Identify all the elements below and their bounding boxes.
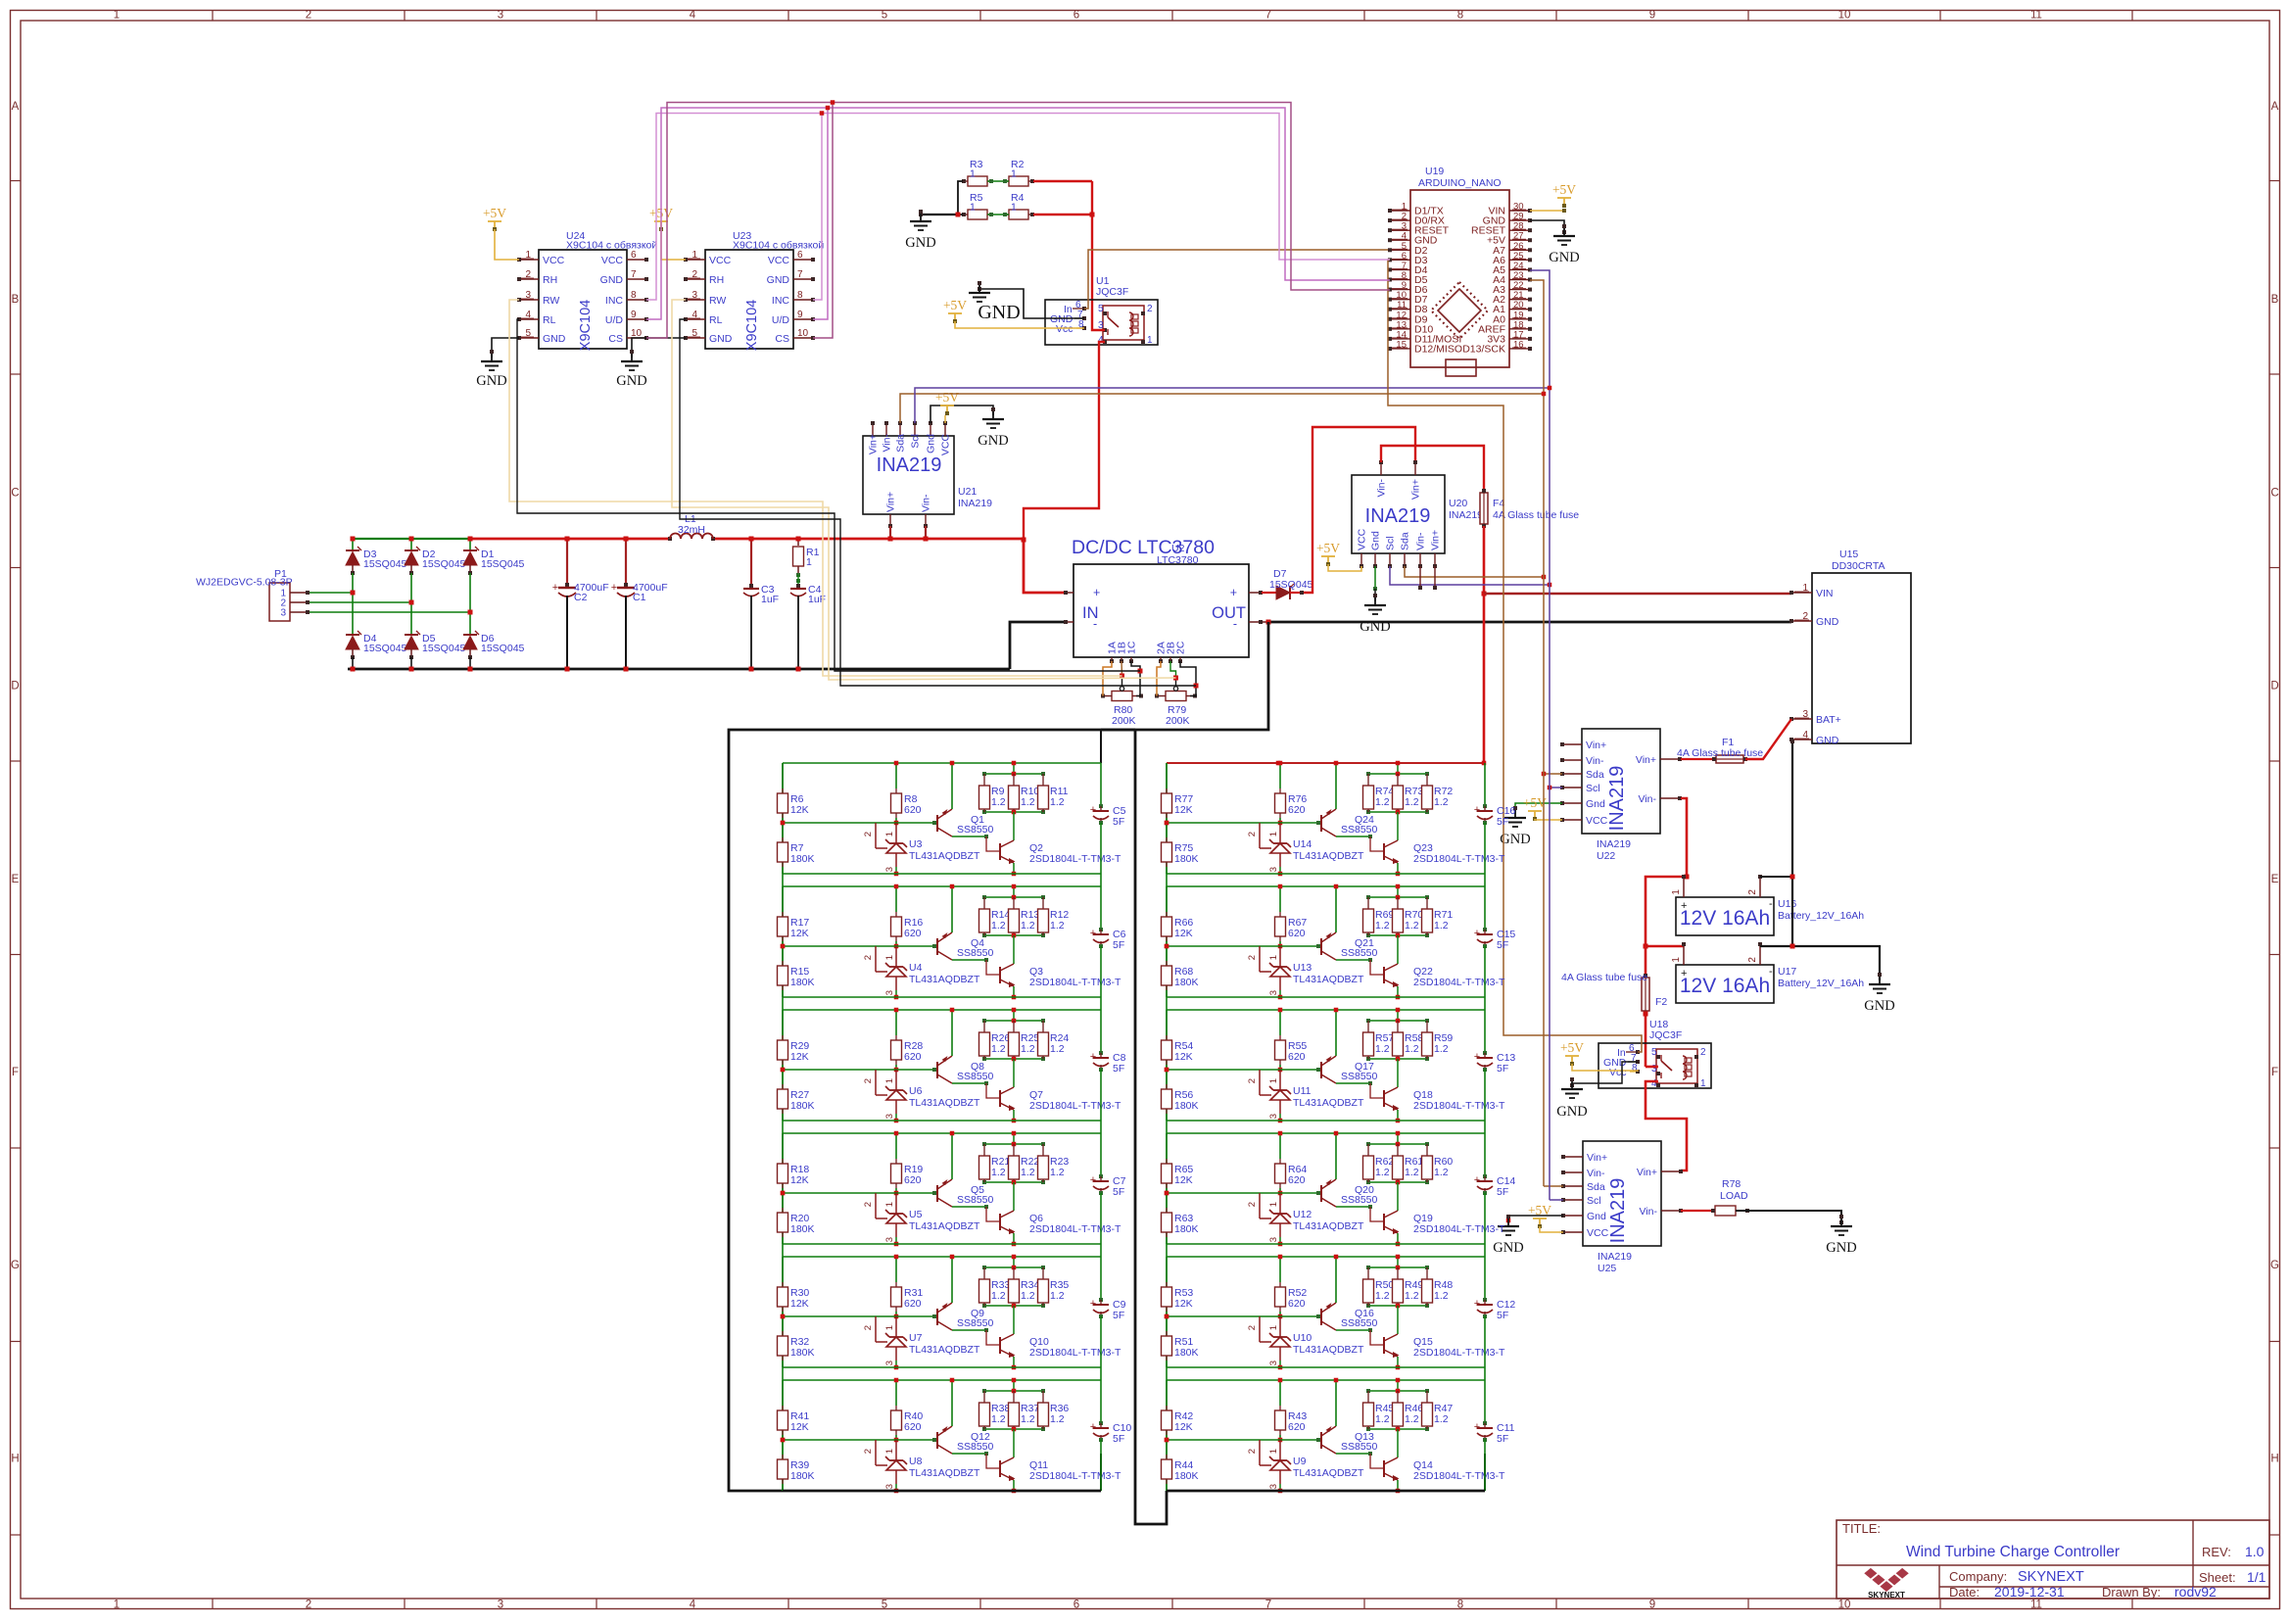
svg-text:2: 2 [1247,955,1258,960]
diode D4 15SQ045 [346,634,359,636]
svg-text:620: 620 [904,1174,922,1186]
svg-text:GND: GND [1826,1240,1856,1256]
svg-text:1.2: 1.2 [1375,796,1390,808]
svg-text:1.2: 1.2 [1405,1413,1419,1425]
svg-text:JQC3F: JQC3F [1096,286,1128,298]
wire base stub Q10 [986,1330,1000,1345]
svg-text:1: 1 [1671,889,1682,895]
wire GND rail jog into LTC3780 IN- [1010,622,1065,669]
svg-text:TITLE:: TITLE: [1842,1521,1881,1536]
resistor group R62 R61 R60 1.2 [1368,1143,1427,1145]
svg-text:RH: RH [543,274,557,286]
svg-text:INA219: INA219 [1606,766,1628,832]
svg-text:+5V: +5V [1528,1203,1551,1218]
svg-text:X9C104: X9C104 [744,300,760,351]
svg-text:3: 3 [280,608,286,619]
ground for U18 [1572,1062,1638,1086]
wire ref node U11 [1165,1068,1169,1073]
wire 2C to R79 right [1180,661,1196,686]
svg-text:2: 2 [863,1449,874,1454]
diode D6 15SQ045 [463,634,477,636]
resistor R15 180K [782,946,784,961]
transistor Q9 SS8550 [936,1309,938,1325]
wire cell bottom rail C13 [1167,1120,1485,1122]
wire inter-cell link [782,1244,784,1257]
transistor Q6 2SD1804L-T-TM3-T [1013,1182,1015,1211]
svg-text:10: 10 [1838,1600,1851,1611]
IC U24 X9C104 [539,250,627,349]
SKYNEXT logo [1863,1567,1878,1580]
wire cell bottom rail C7 [783,1243,1101,1245]
transistor Q15 2SD1804L-T-TM3-T [1397,1306,1399,1334]
wire cell top rail C10 [783,1379,1101,1381]
wire cell left rail C13 [1166,1010,1168,1121]
wire U20 Vin- up to fuse F4 [1381,446,1484,491]
wire U20 Sda to bus [1405,566,1544,577]
svg-text:+: + [1681,968,1687,979]
wire 1B to R80 wiper [1121,661,1123,676]
converter U2 LTC3780 [1073,564,1249,657]
svg-text:GND: GND [1556,1104,1587,1120]
pin LTC3780 OUT- [1249,621,1268,623]
resistor R41 12K [782,1380,784,1406]
svg-text:12K: 12K [790,1421,809,1433]
svg-text:620: 620 [1288,804,1306,816]
wire phase 1 [310,592,353,594]
capacitor C6 5F [1100,886,1102,930]
resistor R75 180K [1166,823,1168,837]
svg-text:Battery_12V_16Ah: Battery_12V_16Ah [1778,978,1864,989]
wire left side of divider to GND [958,181,963,215]
wire divider node down to relay U1 [1091,181,1093,215]
capacitor C10 5F [1100,1380,1102,1423]
resistor R78 LOAD [1681,1210,1715,1212]
wire cathode D2 to DC+ rail [410,539,412,550]
svg-text:4: 4 [690,10,696,22]
svg-text:U11: U11 [1293,1085,1312,1097]
pin LTC3780 1A [1111,657,1113,661]
svg-text:TL431AQDBZT: TL431AQDBZT [1293,1344,1364,1356]
wire battery node down to F2 [1645,946,1647,976]
wire net CS: U23 pin10 branch [813,103,833,339]
capacitor C4 1uF [796,584,800,588]
wire collector Q9 to base Q10 [952,1329,986,1331]
resistor R17 12K [782,886,784,912]
svg-text:GND: GND [1500,832,1530,847]
transistor Q3 2SD1804L-T-TM3-T [1013,935,1015,964]
svg-text:1: 1 [114,10,119,22]
resistor R65 12K [1166,1133,1168,1159]
wire cell left rail C16 [1166,763,1168,874]
capacitor C1 4700uF [625,539,627,585]
diode D5 15SQ045 [405,634,418,636]
svg-text:2SD1804L-T-TM3-T: 2SD1804L-T-TM3-T [1029,1223,1121,1235]
svg-text:1.2: 1.2 [1375,920,1390,931]
svg-text:3: 3 [1268,867,1279,872]
wire base node Q9 [876,1315,934,1317]
wire U22 Vin- to battery + [1681,798,1687,877]
transistor Q5 SS8550 [936,1185,938,1202]
transistor Q18 2SD1804L-T-TM3-T [1397,1059,1399,1087]
svg-text:1: 1 [1011,168,1017,180]
battery U16 12V 16Ah [1676,897,1774,935]
svg-text:RL: RL [709,314,723,326]
resistor group R26 R25 R24 1.2 [984,1020,1043,1022]
svg-text:GND: GND [476,373,506,389]
resistor R66 12K [1166,886,1168,912]
usb connector glyph [1446,359,1476,376]
wire LTC output to right bank top rail [1483,594,1486,763]
svg-text:WJ2EDGVC-5.08-3P: WJ2EDGVC-5.08-3P [196,577,293,589]
svg-text:ARDUINO_NANO: ARDUINO_NANO [1418,177,1502,189]
svg-text:+5V: +5V [943,298,967,312]
resistor R8 620 [895,763,897,788]
svg-text:15SQ045: 15SQ045 [422,558,466,570]
svg-text:TL431AQDBZT: TL431AQDBZT [909,1097,980,1109]
svg-text:1.2: 1.2 [1050,920,1065,931]
resistor R2 1 [1009,176,1028,186]
relay U1 JQC3F [1045,300,1158,345]
svg-text:TL431AQDBZT: TL431AQDBZT [1293,1097,1364,1109]
svg-text:E: E [12,874,20,885]
svg-text:Vin+: Vin+ [1410,479,1422,500]
svg-text:U3: U3 [909,838,923,850]
svg-text:2SD1804L-T-TM3-T: 2SD1804L-T-TM3-T [1413,977,1505,988]
svg-text:VCC: VCC [1357,528,1368,550]
wire base node Q16 [1260,1315,1318,1317]
wire base node Q13 [1260,1439,1318,1441]
svg-text:2SD1804L-T-TM3-T: 2SD1804L-T-TM3-T [1413,1223,1505,1235]
svg-text:1: 1 [884,1449,895,1454]
svg-text:Sheet:: Sheet: [2199,1570,2236,1585]
regulator U6 TL431AQDBZT [875,1070,877,1095]
wire F2 to relay U18 [1645,1014,1647,1067]
svg-text:D: D [11,681,19,693]
wire right bank top rail [1167,762,1485,764]
svg-text:2SD1804L-T-TM3-T: 2SD1804L-T-TM3-T [1029,977,1121,988]
svg-text:2: 2 [1247,1325,1258,1330]
regulator U14 TL431AQDBZT [1259,823,1261,848]
svg-text:U21: U21 [958,486,977,498]
wire U25 Gnd to ground [1508,1216,1563,1223]
svg-text:1.2: 1.2 [1434,920,1449,931]
wire cell bottom rail C16 [1167,873,1485,875]
wire inter-cell link [1166,997,1168,1010]
svg-text:5F: 5F [1497,1433,1508,1445]
resistor R76 620 [1279,763,1281,788]
svg-text:11: 11 [2030,1600,2042,1611]
svg-text:VIN: VIN [1816,588,1834,599]
transistor Q10 2SD1804L-T-TM3-T [1013,1306,1015,1334]
regulator U7 TL431AQDBZT [875,1316,877,1342]
regulator U8 TL431AQDBZT [875,1440,877,1465]
wire U21 Gnd to ground [930,406,993,423]
svg-text:180K: 180K [1174,853,1199,865]
svg-text:12V 16Ah: 12V 16Ah [1680,907,1770,930]
svg-text:15SQ045: 15SQ045 [363,558,407,570]
resistor group R33 R34 R35 1.2 [984,1266,1043,1268]
capacitor C2 4700uF [566,539,568,585]
svg-text:9: 9 [631,310,637,320]
transistor Q23 2SD1804L-T-TM3-T [1397,812,1399,840]
svg-text:1.2: 1.2 [1021,920,1035,931]
svg-text:1.0: 1.0 [2245,1544,2265,1559]
svg-text:G: G [11,1260,20,1271]
wire D7 cathode up to U20 Vin+ [1290,592,1304,594]
svg-text:U5: U5 [909,1209,923,1220]
svg-text:620: 620 [1288,928,1306,939]
wire cell top rail C12 [1167,1256,1485,1258]
resistor R4 1 [1009,210,1028,219]
svg-text:1.2: 1.2 [1050,1413,1065,1425]
resistor group R69 R70 R71 1.2 [1368,896,1427,898]
svg-text:GND: GND [1360,619,1390,635]
svg-text:B: B [12,294,20,306]
svg-text:Wind Turbine Charge Controller: Wind Turbine Charge Controller [1906,1544,2120,1560]
svg-text:TL431AQDBZT: TL431AQDBZT [909,1344,980,1356]
wire base node Q17 [1260,1069,1318,1071]
pin U20 Vin+ nc [1434,566,1436,588]
svg-text:TL431AQDBZT: TL431AQDBZT [909,974,980,985]
regulator U13 TL431AQDBZT [1259,946,1261,972]
svg-text:1.2: 1.2 [1405,1167,1419,1178]
resistor group R74 R73 R72 1.2 [1368,773,1427,775]
regulator U3 TL431AQDBZT [875,823,877,848]
wire collector Q1 to base Q2 [952,836,986,837]
mcu chip glyph [1438,289,1481,332]
svg-text:VCC: VCC [768,255,790,266]
svg-text:5F: 5F [1497,1186,1508,1198]
wire cell bottom rail C5 [783,873,1101,875]
regulator U10 TL431AQDBZT [1259,1316,1261,1342]
svg-text:180K: 180K [1174,1470,1199,1482]
svg-text:4A Glass tube fuse: 4A Glass tube fuse [1561,972,1647,983]
svg-text:Vin-: Vin- [1586,755,1604,767]
regulator U5 TL431AQDBZT [875,1193,877,1218]
wire D3 line to U18 In [1388,260,1642,1052]
wire GND bottom rail [348,668,1010,671]
transistor Q22 2SD1804L-T-TM3-T [1397,935,1399,964]
svg-text:1: 1 [1268,1449,1279,1454]
wire cell bottom rail C14 [1167,1243,1485,1245]
wire base stub Q11 [986,1454,1000,1468]
resistor group R50 R49 R48 1.2 [1368,1266,1427,1268]
svg-text:6: 6 [631,250,637,261]
svg-text:GND: GND [543,333,566,345]
svg-text:620: 620 [1288,1421,1306,1433]
wire anode D6 to GND rail [469,657,471,669]
transistor Q1 SS8550 [936,815,938,832]
svg-text:12K: 12K [790,1174,809,1186]
svg-text:D13/SCK: D13/SCK [1462,343,1505,355]
wire U24 RW cream bus [509,300,1122,676]
svg-text:CS: CS [775,333,789,345]
svg-text:1: 1 [1268,832,1279,836]
svg-text:Vin+: Vin+ [1587,1152,1607,1164]
svg-text:U12: U12 [1293,1209,1312,1220]
wire F4 down to VIN rail junction [1483,526,1486,594]
resistor R5 1 [968,210,987,219]
svg-text:2: 2 [1147,304,1153,314]
wire base node Q5 [876,1192,934,1194]
svg-text:1: 1 [970,202,976,214]
svg-text:2: 2 [1747,957,1758,963]
svg-text:INA219: INA219 [1598,1251,1632,1263]
wire U21 Vin+ down to DC+ rail [889,526,891,539]
svg-text:4: 4 [690,1600,696,1611]
svg-text:8: 8 [1457,1600,1463,1611]
svg-text:GND: GND [1549,250,1579,265]
svg-text:3: 3 [884,1114,895,1119]
wire 2B to R79 wiper [1170,661,1176,678]
svg-text:+5V: +5V [483,206,506,220]
svg-text:15SQ045: 15SQ045 [363,643,407,654]
svg-text:180K: 180K [790,1223,815,1235]
svg-text:RL: RL [543,314,556,326]
wire 2A to R79 left [1157,661,1161,696]
wire U23 RL black bus [680,319,1196,686]
wire inter-cell link [1166,1367,1168,1380]
transistor Q17 SS8550 [1320,1062,1322,1078]
wire cell left rail C15 [1166,886,1168,997]
svg-text:6: 6 [1073,10,1079,22]
capacitor C5 5F [1100,763,1102,806]
svg-text:620: 620 [904,1421,922,1433]
regulator U9 TL431AQDBZT [1259,1440,1261,1465]
transistor Q21 SS8550 [1320,938,1322,955]
svg-text:+5V: +5V [1316,541,1340,555]
svg-text:F: F [12,1067,19,1078]
svg-text:2: 2 [306,1600,311,1611]
wire inter-cell link [782,1121,784,1133]
wire net U/D: U24 pin9 to Arduino D5 [646,108,1390,319]
svg-text:2SD1804L-T-TM3-T: 2SD1804L-T-TM3-T [1413,853,1505,865]
svg-text:3: 3 [1268,1237,1279,1242]
wire F1 to BAT+ diagonal [1745,719,1791,759]
svg-text:Battery_12V_16Ah: Battery_12V_16Ah [1778,910,1864,922]
current sensor U25 INA219 [1583,1141,1661,1246]
wire cell top rail C14 [1167,1132,1485,1134]
svg-text:1/1: 1/1 [2247,1569,2266,1585]
svg-text:Sda: Sda [1586,769,1604,781]
resistor R55 620 [1279,1010,1281,1035]
svg-text:2: 2 [1247,1449,1258,1454]
svg-text:200K: 200K [1166,715,1190,727]
svg-text:2: 2 [1700,1047,1706,1058]
svg-text:1.2: 1.2 [1021,1167,1035,1178]
wire Sda bus vertical [1530,280,1544,1186]
wire collector Q5 to base Q6 [952,1206,986,1208]
svg-text:2SD1804L-T-TM3-T: 2SD1804L-T-TM3-T [1029,1100,1121,1112]
svg-text:1.2: 1.2 [991,1290,1006,1302]
wire base node Q20 [1260,1192,1318,1194]
svg-text:+: + [611,582,617,594]
svg-text:1.2: 1.2 [1434,1290,1449,1302]
svg-text:rodv92: rodv92 [2174,1584,2217,1600]
wire cell bottom rail C15 [1167,996,1485,998]
resistor R54 12K [1166,1010,1168,1035]
svg-text:C: C [2270,487,2278,499]
wire base node Q8 [876,1069,934,1071]
svg-text:D: D [2270,681,2278,693]
wire U21 Vin- down to DC+ rail [925,526,927,539]
svg-text:RW: RW [543,295,559,307]
svg-text:C1: C1 [633,592,646,603]
svg-text:INA219: INA219 [958,498,992,509]
svg-text:INA219: INA219 [877,454,942,476]
capacitor C16 5F [1484,763,1486,806]
svg-text:2SD1804L-T-TM3-T: 2SD1804L-T-TM3-T [1413,1347,1505,1359]
wire collector Q24 to base Q23 [1336,836,1370,837]
svg-text:15SQ045: 15SQ045 [422,643,466,654]
capacitor C8 5F [1100,1010,1102,1053]
wire D2 to U1 In [1084,250,1390,309]
resistor R42 12K [1166,1380,1168,1406]
wire base node Q24 [1260,822,1318,824]
resistor R27 180K [782,1070,784,1084]
svg-text:200K: 200K [1112,715,1136,727]
wire ref node U12 [1165,1191,1169,1196]
svg-text:SS8550: SS8550 [957,1441,994,1453]
resistor R53 12K [1166,1257,1168,1282]
resistor R67 620 [1279,886,1281,912]
resistor R19 620 [895,1133,897,1159]
svg-text:620: 620 [1288,1298,1306,1310]
resistor R30 12K [782,1257,784,1282]
svg-text:U16: U16 [1778,898,1796,910]
svg-text:VCC: VCC [1587,1227,1609,1239]
svg-text:1: 1 [1671,957,1682,963]
svg-text:12K: 12K [790,1298,809,1310]
wire U19 GND [1530,220,1564,232]
svg-text:INA219: INA219 [1597,838,1631,850]
svg-text:12K: 12K [1174,1051,1193,1063]
svg-text:1.2: 1.2 [1375,1413,1390,1425]
resistor R29 12K [782,1010,784,1035]
svg-text:1.2: 1.2 [991,1167,1006,1178]
svg-text:-: - [1233,617,1237,631]
wire anode D5 to GND rail [410,657,412,669]
wire ref node U8 [781,1438,786,1443]
svg-text:180K: 180K [790,977,815,988]
wire base stub Q14 [1370,1454,1384,1468]
wire collector Q20 to base Q19 [1336,1206,1370,1208]
capacitor C11 5F [1484,1380,1486,1423]
resistor R44 180K [1166,1440,1168,1455]
svg-text:1: 1 [114,1600,119,1611]
svg-text:GND: GND [1816,735,1839,746]
resistor R39 180K [782,1440,784,1455]
wire net INC: U24 pin8 to Arduino D3 [646,114,1390,301]
svg-text:3: 3 [498,1600,503,1611]
wire cell left rail C10 [782,1380,784,1491]
wire left bank right edge [1135,730,1167,1524]
svg-text:1.2: 1.2 [1405,1290,1419,1302]
wire phase node column x=360 [352,573,354,635]
power +5V for U19 VIN [1530,210,1564,212]
resistor R7 180K [782,823,784,837]
svg-text:Gnd: Gnd [1370,531,1382,550]
transistor Q2 2SD1804L-T-TM3-T [1013,812,1015,840]
svg-text:5: 5 [882,1600,887,1611]
wire cell top rail C7 [783,1132,1101,1134]
svg-text:12K: 12K [1174,1298,1193,1310]
pin LTC3780 1C [1130,657,1132,661]
svg-text:9: 9 [1649,10,1655,22]
pin LTC3780 IN+ [1065,592,1073,594]
svg-text:2SD1804L-T-TM3-T: 2SD1804L-T-TM3-T [1413,1470,1505,1482]
svg-text:Sda: Sda [895,434,907,453]
